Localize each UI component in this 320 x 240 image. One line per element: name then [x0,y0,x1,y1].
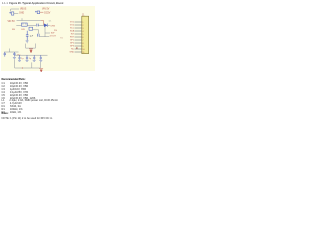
svg-text:GND: GND [69,52,74,54]
battery BT1 body [12,12,14,15]
svg-text:CHG: CHG [50,25,55,27]
wire from Q2 [33,29,39,31]
battery BT1 plus mark [9,12,11,14]
gnd pocket wire [26,44,36,49]
ground [26,41,29,43]
adapter plug body [37,11,40,14]
schematic panel [0,0,95,120]
wire GND [14,12,18,14]
connector header body [82,16,89,53]
wire from IC [27,24,36,26]
wire vout [39,36,49,38]
note line [2,117,53,120]
adapter plug plus mark [35,11,37,13]
capacitor C3 [26,31,29,41]
wire to diode [39,24,45,26]
svg-text:GND: GND [19,13,24,15]
svg-text:EN: EN [22,29,25,31]
wire from plug [40,11,44,13]
bottom rail left [4,49,19,53]
component list [2,83,58,115]
svg-text:VIN 5V: VIN 5V [8,21,16,23]
capacitor C6 [13,52,15,57]
capacitor C4 [38,34,39,37]
svg-text:DC5V: DC5V [44,13,51,15]
bottom gnd bus [15,60,41,68]
bottom gnd bus drop mid [31,62,33,68]
svg-text:RST: RST [70,37,75,39]
section title [2,2,63,5]
transistor Q2 [29,27,33,30]
svg-text:SDA: SDA [70,30,75,33]
capacitor C10 [40,55,42,60]
svg-text:NC: NC [71,49,75,51]
capacitor C9 [33,55,35,60]
wire into IC [16,24,21,26]
capacitor C5 [4,52,6,57]
power ground (red) [29,49,33,53]
bottom rail mid [15,54,48,56]
capacitor C2 [37,24,38,27]
IC U1 [22,23,28,26]
ground [13,57,16,59]
power ground 2 (red) [39,69,43,72]
red junction dot [22,67,23,68]
schematic background [1,6,95,71]
pin numbers inside header [82,22,85,54]
pin net labels [69,22,74,54]
capacitor C7 [18,55,20,60]
notes subheading [2,112,9,115]
svg-text:PG: PG [54,30,57,32]
branch to C4 [38,30,40,34]
pin rows [75,22,82,52]
wire sw [45,32,50,34]
svg-text:VBUS: VBUS [20,9,27,11]
diode D1 [44,24,47,27]
svg-text:VOUT: VOUT [50,36,57,38]
capacitor C8 [26,55,28,60]
stub net label [76,47,77,48]
ground hash row [18,60,42,61]
recommended components heading [2,78,26,81]
drop from diode [44,27,46,37]
svg-text:VIN 5V: VIN 5V [42,8,50,10]
wire VBUS [11,9,19,12]
wire after diode [48,24,50,26]
wire top rail [17,18,42,20]
wire red corner [41,21,44,26]
